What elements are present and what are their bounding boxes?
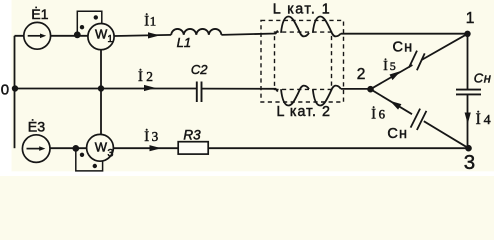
- svg-text:Сн: Сн: [387, 126, 408, 142]
- svg-text:Ė3: Ė3: [28, 117, 45, 135]
- svg-text:Сн: Сн: [474, 71, 492, 86]
- svg-text:Сн: Сн: [393, 40, 414, 56]
- svg-text:L кат. 1: L кат. 1: [273, 2, 331, 18]
- svg-text:0: 0: [1, 81, 9, 98]
- node 2: [367, 86, 374, 93]
- node 0: [12, 85, 18, 91]
- svg-text:R3: R3: [183, 127, 201, 142]
- svg-text:3: 3: [107, 147, 113, 159]
- coupled coil bottom B: [313, 86, 341, 106]
- svg-text:İ: İ: [138, 69, 143, 85]
- source E1: [24, 22, 51, 49]
- branch node3 to node2 wire: [371, 89, 469, 148]
- dashed box inner (L kat 2): [275, 32, 332, 89]
- svg-text:5: 5: [390, 59, 396, 73]
- dashed box outer (L kat 1): [261, 20, 344, 102]
- current I5 arrow: [390, 71, 401, 80]
- wire left vertical bus: [14, 36, 16, 148]
- wattmeter W3: [76, 134, 114, 170]
- svg-text:W: W: [95, 139, 108, 154]
- capacitor C2: [197, 82, 202, 103]
- svg-text:C2: C2: [191, 62, 208, 77]
- polarity dot W3 voltage coil: [93, 164, 97, 168]
- node 1: [464, 31, 470, 37]
- current I6 arrow: [390, 101, 402, 110]
- polarity dot W3 current coil: [80, 153, 84, 157]
- svg-text:2: 2: [357, 66, 366, 83]
- wire R3 to node 3: [208, 147, 468, 149]
- svg-text:1: 1: [466, 10, 475, 27]
- current I1 arrow: [148, 32, 160, 38]
- right vertical node1 to node3: [467, 34, 469, 148]
- wire E1 to W1: [15, 35, 89, 37]
- middle wire C2 to box: [202, 89, 278, 92]
- node 3: [465, 145, 472, 152]
- svg-text:İ: İ: [383, 58, 388, 73]
- coupled coil top A: [281, 17, 309, 37]
- svg-text:2: 2: [146, 69, 153, 84]
- svg-text:İ: İ: [476, 111, 481, 128]
- resistor R3: [178, 142, 208, 154]
- svg-text:6: 6: [379, 107, 386, 121]
- inductor L1: [171, 29, 221, 35]
- wire W3 to R3: [113, 147, 178, 149]
- wire W1 to W3 vertical: [100, 50, 102, 135]
- capacitor Cn right: [456, 90, 481, 95]
- middle wire box to node 2: [341, 88, 371, 90]
- wire W1 to L1: [114, 35, 171, 36]
- coupled coil top B: [313, 17, 341, 37]
- polarity dot W1 voltage coil: [94, 15, 98, 19]
- middle wire node0 to C2: [15, 88, 197, 90]
- svg-text:1: 1: [150, 14, 156, 28]
- svg-text:L1: L1: [177, 35, 191, 50]
- wire L1 to coupling box: [221, 31, 277, 35]
- svg-text:3: 3: [464, 151, 475, 174]
- branch node2 to node1 wire: [371, 34, 468, 89]
- junction middle/vertical: [98, 85, 104, 91]
- wire E3 to W3: [50, 147, 87, 149]
- coupled coil bottom A: [281, 86, 309, 106]
- wire box to node 1: [341, 33, 468, 35]
- svg-text:W: W: [95, 26, 108, 41]
- svg-text:L кат. 2: L кат. 2: [277, 104, 331, 120]
- junction dot at W3 input: [72, 145, 79, 152]
- source E3: [22, 135, 50, 163]
- junction dot at W1 input: [74, 31, 81, 38]
- svg-text:3: 3: [152, 129, 159, 144]
- svg-text:İ: İ: [144, 129, 149, 145]
- current I2 arrow: [144, 85, 156, 91]
- svg-text:1: 1: [107, 34, 112, 45]
- svg-text:Ė1: Ė1: [31, 5, 48, 23]
- svg-text:İ: İ: [144, 13, 149, 29]
- capacitor Cn (I5 branch) plates: [409, 51, 425, 71]
- wattmeter W1: [77, 11, 114, 49]
- current I4 arrow: [465, 113, 471, 125]
- capacitor Cn (I6 branch) plates: [411, 109, 427, 130]
- svg-text:4: 4: [484, 113, 491, 128]
- svg-text:İ: İ: [371, 106, 376, 122]
- polarity dot W1 current coil: [80, 25, 84, 29]
- current I3 arrow: [150, 145, 162, 151]
